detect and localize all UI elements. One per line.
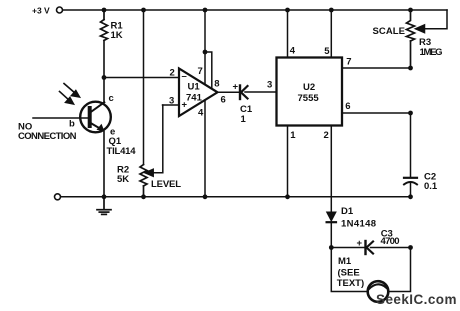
U1 pin 8 wire bbox=[205, 52, 220, 90]
svg-text:+: + bbox=[233, 82, 239, 93]
svg-text:+3 V: +3 V bbox=[32, 5, 50, 15]
svg-text:4700: 4700 bbox=[381, 236, 400, 247]
svg-text:CONNECTION: CONNECTION bbox=[18, 131, 77, 142]
svg-text:7: 7 bbox=[198, 66, 203, 77]
U2 pin 7 wire bbox=[342, 56, 411, 68]
node: pin7/pin8 junction bbox=[203, 50, 208, 55]
svg-text:(SEE: (SEE bbox=[338, 267, 360, 278]
svg-text:8: 8 bbox=[214, 79, 219, 90]
junction: top rail / U1 pin7 column bbox=[203, 8, 208, 13]
resistor R1 1K bbox=[101, 10, 124, 41]
svg-text:U1: U1 bbox=[188, 82, 201, 93]
svg-text:D1: D1 bbox=[341, 206, 354, 217]
U1 output wire pin 6 bbox=[218, 92, 240, 105]
U1 pin 3 wire and label bbox=[163, 96, 180, 107]
svg-text:2: 2 bbox=[170, 68, 175, 79]
wire R1 to Q1 collector bbox=[103, 41, 105, 103]
wire Q1 emitter to ground rail bbox=[103, 132, 105, 197]
svg-text:TIL414: TIL414 bbox=[107, 146, 137, 157]
svg-text:0.1: 0.1 bbox=[424, 181, 438, 192]
wire C1 to U2 pin 3 bbox=[245, 91, 277, 93]
junction: top rail / U2 pin4 column bbox=[285, 8, 290, 13]
junction: pin7 / R3 bottom bbox=[408, 66, 413, 71]
svg-text:1MEG: 1MEG bbox=[420, 47, 443, 58]
svg-text:6: 6 bbox=[345, 101, 350, 112]
svg-text:U2: U2 bbox=[303, 82, 315, 93]
diode D1 1N4148 bbox=[327, 206, 376, 229]
bottom terminal bbox=[55, 194, 61, 200]
potentiometer R3 1MEG bbox=[373, 10, 443, 68]
IC U2 7555 bbox=[277, 58, 343, 126]
junction: bottom rail / R2 bbox=[141, 194, 146, 199]
svg-text:LEVEL: LEVEL bbox=[151, 179, 181, 190]
light arrows bbox=[60, 84, 80, 105]
junction: top rail / U2 pin5 column bbox=[329, 8, 334, 13]
U1 pin 7 wire bbox=[198, 10, 206, 84]
junction: bottom rail / U1 pin4 bbox=[203, 194, 208, 199]
bottom rail wire bbox=[61, 196, 411, 198]
capacitor C2 0.1 bbox=[404, 171, 438, 197]
svg-text:3: 3 bbox=[169, 96, 174, 107]
svg-text:4: 4 bbox=[290, 46, 296, 57]
U1 pin 4 wire bbox=[198, 100, 205, 197]
junction: pin6 / C2 column bbox=[408, 111, 413, 116]
svg-text:+: + bbox=[357, 238, 363, 249]
R2 wiper arrow to U1 pin3 bbox=[145, 105, 163, 176]
meter M1 bbox=[331, 248, 410, 302]
junction: top rail / R2 column bbox=[141, 8, 146, 13]
junction: top rail / R3 bbox=[408, 8, 413, 13]
wire D1 to C3 row bbox=[330, 223, 332, 248]
svg-text:7555: 7555 bbox=[298, 93, 320, 104]
junction: bottom rail / U2 pin1 bbox=[285, 194, 290, 199]
potentiometer R2 5K bbox=[117, 164, 181, 197]
svg-text:2: 2 bbox=[324, 130, 329, 141]
wire to U1 pin 2 bbox=[104, 77, 179, 79]
junction: D1 / C3 / M1 bbox=[329, 245, 334, 250]
svg-text:c: c bbox=[109, 93, 114, 104]
svg-text:741: 741 bbox=[186, 93, 203, 104]
top rail wire bbox=[63, 9, 447, 11]
svg-text:6: 6 bbox=[221, 95, 226, 106]
U2 pin 5 wire bbox=[324, 10, 331, 58]
svg-text:7: 7 bbox=[346, 56, 351, 67]
svg-text:1: 1 bbox=[241, 114, 247, 125]
svg-text:M1: M1 bbox=[338, 256, 352, 267]
svg-text:3: 3 bbox=[267, 80, 272, 91]
svg-text:4: 4 bbox=[198, 108, 204, 119]
junction: bottom rail / Q1 emitter bbox=[102, 194, 107, 199]
base stub wire (no connection) bbox=[33, 117, 88, 119]
svg-text:SCALE: SCALE bbox=[373, 26, 406, 37]
U2 pin 2 wire bbox=[324, 126, 332, 212]
wire top rail to R2 bbox=[143, 10, 145, 165]
svg-text:1: 1 bbox=[290, 130, 296, 141]
U2 pin 1 wire bbox=[288, 126, 297, 197]
svg-text:1K: 1K bbox=[111, 30, 123, 41]
label NO CONNECTION bbox=[18, 122, 77, 143]
junction: C3 / C2 column / M1 right bbox=[408, 245, 413, 250]
R3 wiper loop wire bbox=[416, 10, 448, 33]
svg-text:SeekIC.com: SeekIC.com bbox=[376, 292, 457, 307]
node: collector / U1 pin2 junction bbox=[102, 75, 107, 80]
op-amp U1 741 bbox=[179, 69, 218, 117]
junction: top rail / R1 bbox=[102, 8, 107, 13]
capacitor C3 4700 bbox=[331, 229, 410, 254]
U2 pin 6 wire bbox=[342, 101, 411, 113]
svg-text:b: b bbox=[69, 119, 75, 130]
wire pin6 node to C2 bbox=[410, 113, 412, 177]
svg-text:5K: 5K bbox=[117, 174, 129, 185]
phototransistor Q1 TIL414 bbox=[69, 93, 136, 157]
svg-text:5: 5 bbox=[324, 46, 330, 57]
svg-text:1N4148: 1N4148 bbox=[341, 219, 376, 230]
svg-text:TEXT): TEXT) bbox=[337, 278, 364, 289]
+3V terminal bbox=[32, 5, 63, 15]
ground bbox=[97, 197, 111, 215]
svg-text:–: – bbox=[182, 71, 187, 82]
capacitor C1 1uF bbox=[233, 82, 253, 126]
U2 pin 4 wire bbox=[288, 10, 296, 58]
junction: bottom rail / C2 column bbox=[408, 194, 413, 199]
